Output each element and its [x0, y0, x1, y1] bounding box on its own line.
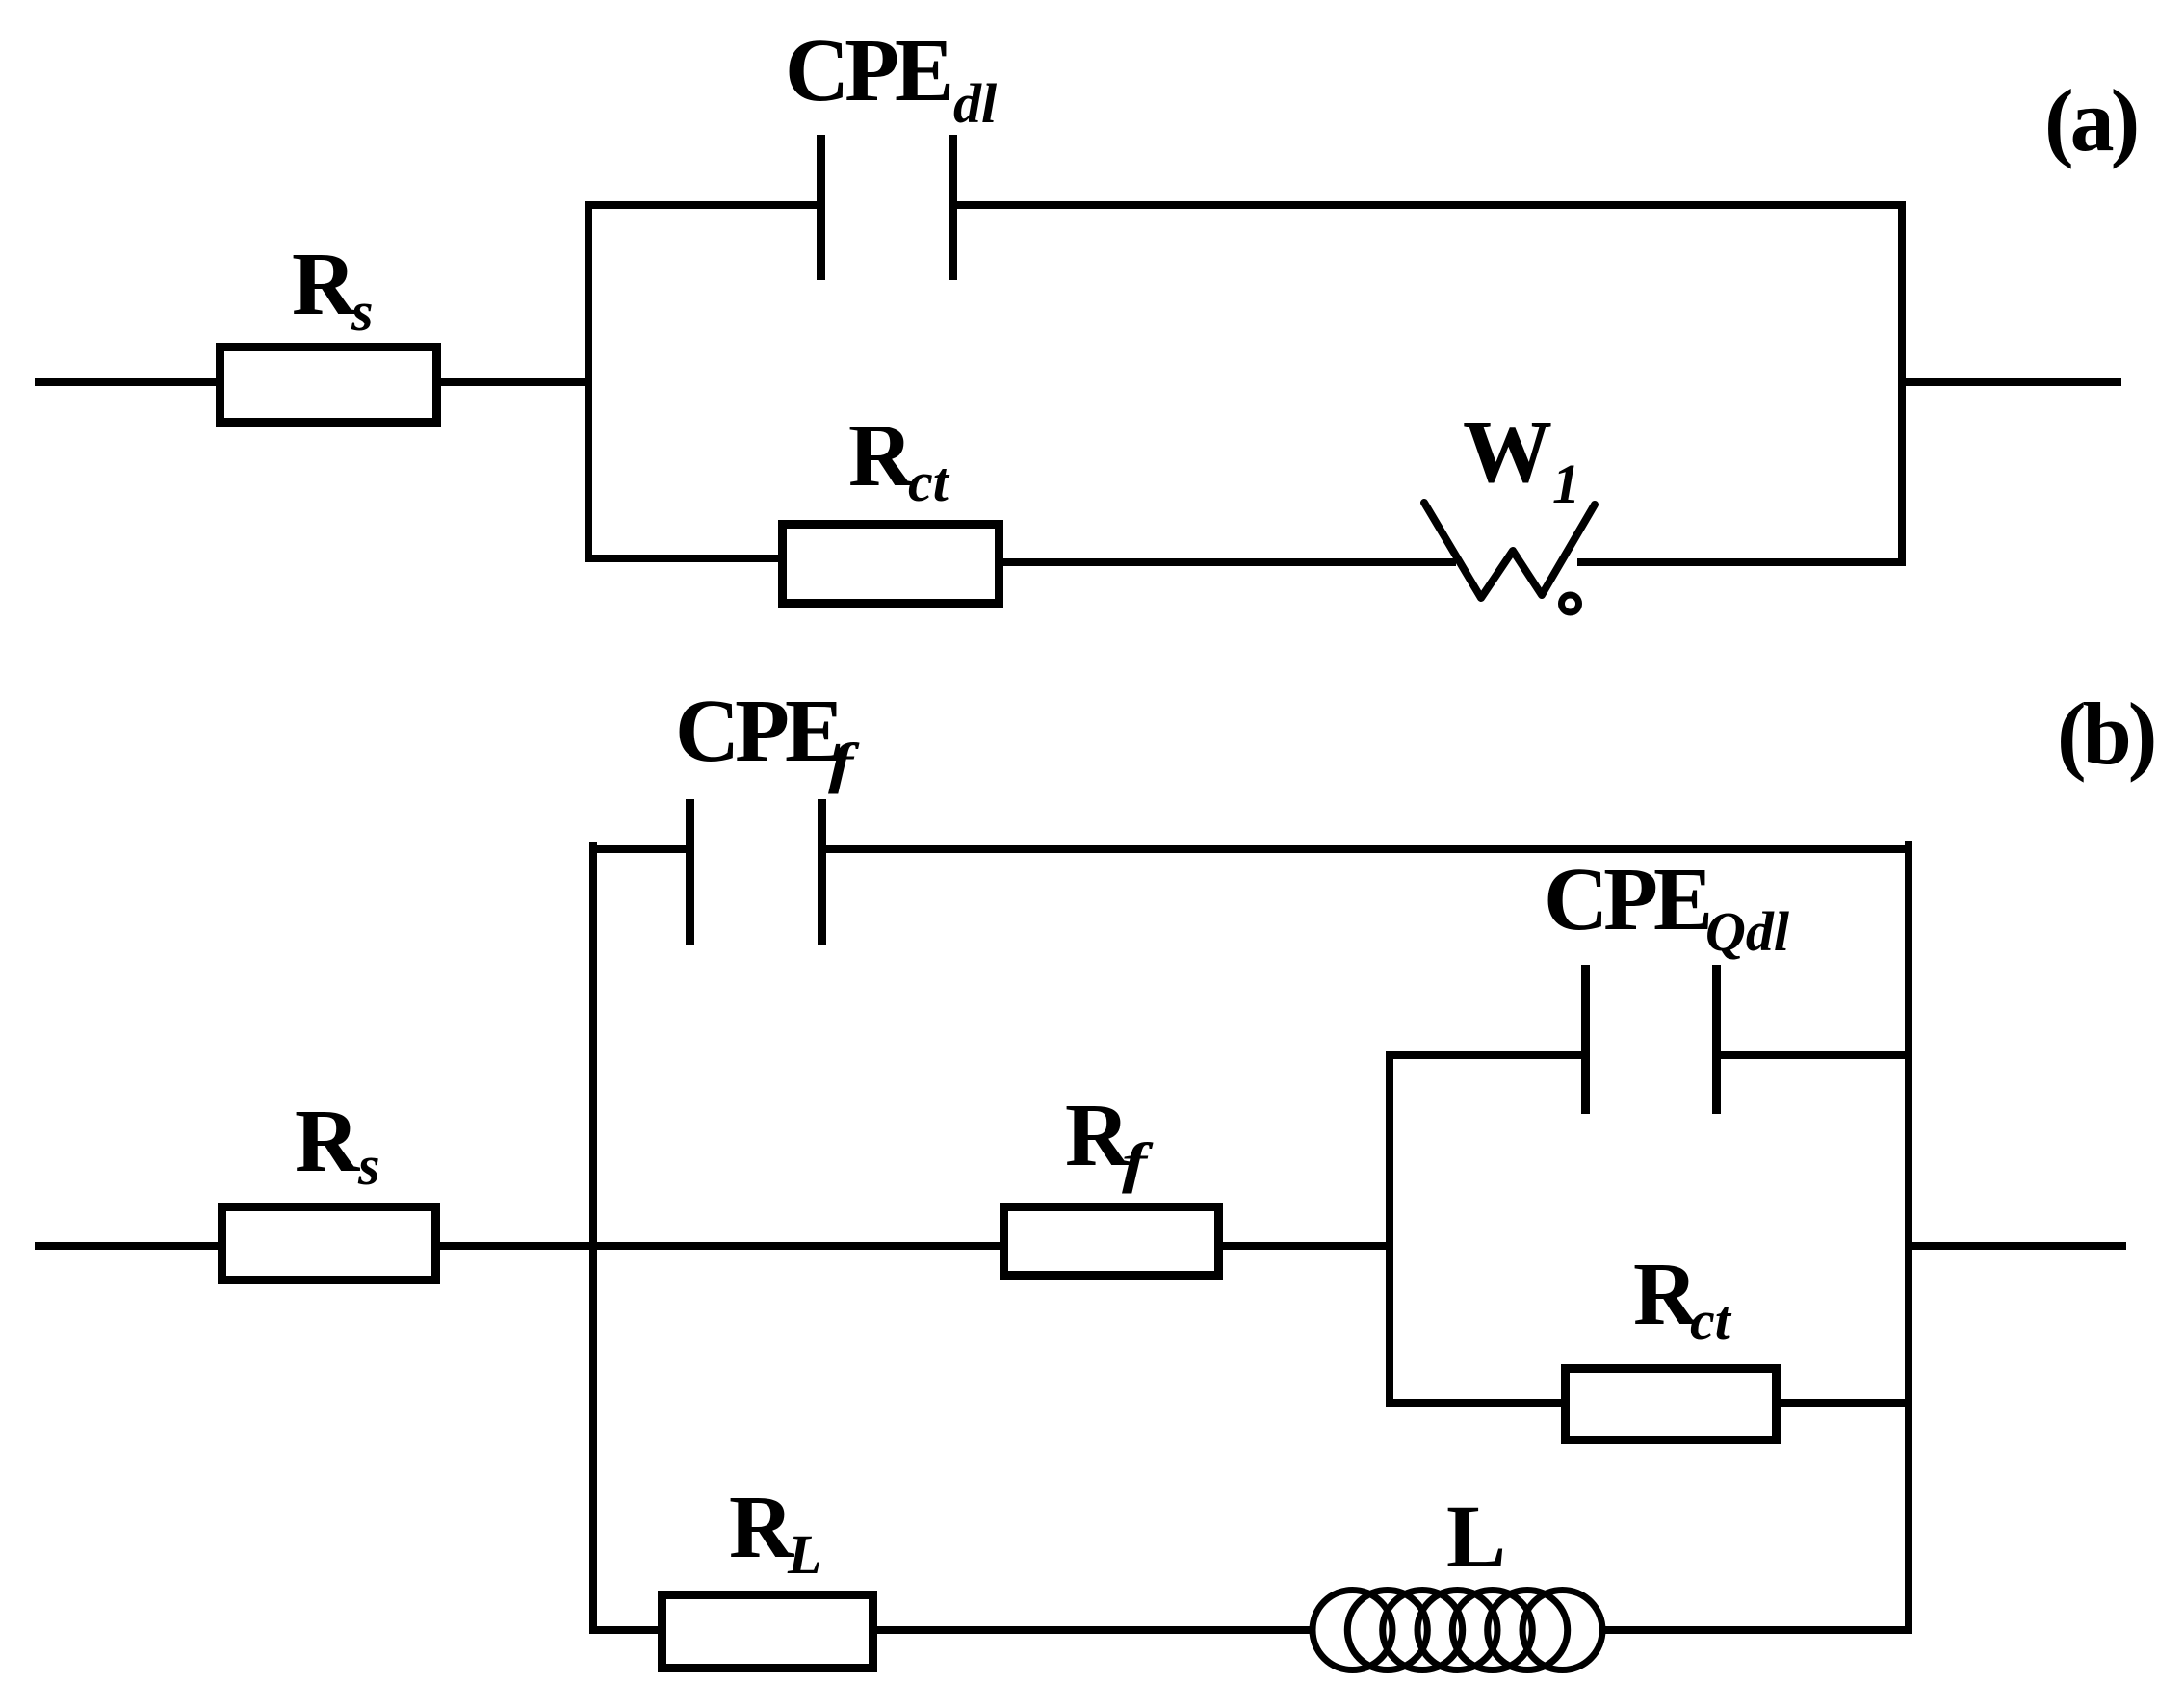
resistor Rs (b) — [218, 1203, 440, 1284]
label RL — [0, 0, 2184, 1]
wire: right vertical of parallel loop (a) — [1898, 201, 1906, 566]
resistor RL (b) — [658, 1591, 877, 1672]
label W1 — [0, 0, 2184, 1]
inductor L coil — [1308, 1586, 1608, 1676]
wire: Rct to Warburg (a) — [1003, 558, 1456, 566]
wire: inner top rail right segment (b) — [1716, 1051, 1912, 1059]
label CPEQdl — [0, 0, 2184, 1]
resistor Rct (a) — [778, 520, 1003, 608]
resistor Rs (a) — [216, 343, 441, 427]
wire: main wire junction to Rf (b) — [597, 1242, 1000, 1250]
label (b) — [0, 0, 2184, 1]
capacitor CPEdl right plate — [949, 135, 957, 280]
label CPEf — [0, 0, 2184, 1]
resistor Rct (b) — [1561, 1364, 1781, 1444]
wire: inner top rail left segment (b) — [1386, 1051, 1585, 1059]
label Rct (a) — [0, 0, 2184, 1]
wire: input lead (b) — [35, 1242, 221, 1250]
wire: inner loop left vertical (b) — [1386, 1051, 1393, 1407]
wire: top rail right segment (b) — [822, 845, 1912, 853]
capacitor CPEQdl right plate — [1712, 965, 1721, 1114]
capacitor CPEf left plate — [686, 799, 694, 945]
label Rs (b) — [0, 0, 2184, 1]
wire: bottom rail left segment (a) — [585, 555, 782, 562]
wire: top rail right segment (a) — [953, 201, 1906, 209]
wire: output lead (b) — [1909, 1242, 2126, 1250]
label CPEdl — [0, 0, 2184, 1]
label L — [0, 0, 2184, 1]
wire: output lead (a) — [1902, 378, 2121, 386]
wire: RL to inductor (b) — [877, 1626, 1315, 1634]
wire: right vertical of outer loop (b) — [1905, 841, 1912, 1634]
capacitor CPEQdl left plate — [1581, 965, 1590, 1114]
wire: input lead (a) — [35, 378, 220, 386]
capacitor CPEdl left plate — [817, 135, 825, 280]
Warburg element W1 — [1401, 481, 1623, 626]
wire: Warburg to right vertical (a) — [1577, 558, 1906, 566]
wire: Rs to junction (a) — [437, 378, 592, 386]
capacitor CPEf right plate — [818, 799, 826, 945]
wire: inner bottom rail left segment (b) — [1386, 1399, 1561, 1407]
wire: top rail left segment (b) — [589, 845, 689, 853]
wire: inductor to right vertical (b) — [1600, 1626, 1912, 1634]
resistor Rf (b) — [1000, 1203, 1223, 1280]
label Rs (a) — [0, 0, 2184, 1]
label (a) — [0, 0, 2184, 1]
wire: left vertical of parallel loop (a) — [585, 201, 592, 562]
wire: inner bottom rail right segment (b) — [1781, 1399, 1912, 1407]
wire: top rail left segment (a) — [585, 201, 820, 209]
wire: bottom rail left segment (b) — [589, 1626, 658, 1634]
wire: Rs to junction (b) — [436, 1242, 597, 1250]
wire: Rf to inner loop (b) — [1223, 1242, 1393, 1250]
wire: left vertical of outer loop (b) — [589, 842, 597, 1634]
label Rct (b) — [0, 0, 2184, 1]
label Rf — [0, 0, 2184, 1]
